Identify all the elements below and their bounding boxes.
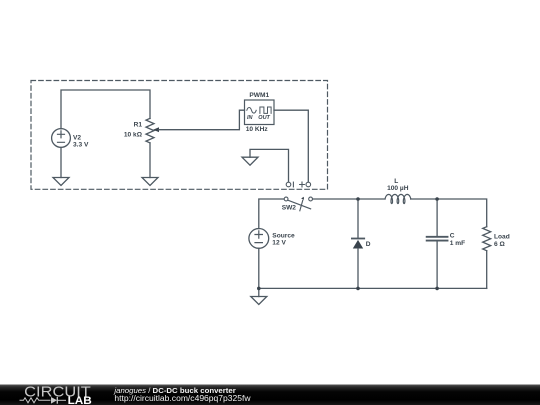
- wire diode top: [357, 199, 359, 239]
- svg-text:Load: Load: [494, 234, 510, 241]
- svg-text:LAB: LAB: [68, 395, 92, 405]
- junction node diode/rail: [356, 287, 360, 291]
- junction node cap/rail: [435, 287, 439, 291]
- svg-text:L: L: [394, 178, 398, 185]
- junction node switch/diode: [356, 197, 360, 201]
- voltage source: Source: [249, 229, 269, 249]
- junction node L/C: [435, 197, 439, 201]
- wire source bottom to rail: [258, 248, 260, 288]
- switch SW2 actuator arrow: [300, 200, 303, 211]
- switch SW2 left contact: [284, 197, 288, 201]
- square wave glyph: [260, 107, 271, 113]
- svg-text:Source: Source: [272, 233, 295, 240]
- switch SW2 lever: [288, 200, 311, 209]
- svg-text:SW2: SW2: [282, 205, 297, 212]
- diode D cathode bar: [352, 238, 364, 240]
- PWM1 block body: [245, 100, 275, 125]
- wire wiper to PWM IN: [159, 110, 245, 130]
- svg-text:OUT: OUT: [258, 115, 270, 121]
- wire gnd main: [258, 288, 260, 296]
- svg-text:R1: R1: [134, 121, 143, 128]
- wire PWM OUT to + port: [274, 110, 308, 182]
- svg-text:V2: V2: [73, 134, 81, 141]
- wire inductor to load corner: [411, 199, 487, 227]
- svg-text:IN: IN: [247, 115, 254, 121]
- junction node source/rail: [257, 287, 261, 291]
- port + sign: [300, 182, 305, 187]
- annotation dashed box: [31, 81, 328, 190]
- ground (main): [251, 297, 267, 305]
- wire load bottom: [486, 251, 488, 289]
- inductor L coil: [385, 194, 411, 203]
- wire R1 bottom: [149, 143, 151, 178]
- svg-text:PWM1: PWM1: [249, 92, 269, 99]
- svg-text:10 kΩ: 10 kΩ: [124, 131, 143, 138]
- ground (V2): [53, 178, 69, 186]
- svg-text:D: D: [366, 241, 371, 248]
- wire capacitor bottom: [436, 241, 438, 289]
- sine glyph: [247, 108, 256, 114]
- port | tick mark: [292, 182, 294, 187]
- ground (R1): [142, 178, 158, 186]
- diode D body: [353, 240, 363, 249]
- resistor R1 potentiometer body: [146, 118, 154, 143]
- voltage source V2: [52, 129, 71, 148]
- svg-text:6 Ω: 6 Ω: [494, 241, 505, 248]
- load resistor body: [483, 227, 491, 251]
- svg-text:C: C: [450, 233, 455, 240]
- wire V2 top to R1 top: [61, 90, 150, 129]
- capacitor C plates: [427, 236, 448, 238]
- wire diode bottom: [357, 249, 359, 289]
- svg-text:1 mF: 1 mF: [450, 240, 465, 247]
- wire V2 bottom: [60, 147, 62, 177]
- svg-text:3.3 V: 3.3 V: [73, 141, 89, 148]
- svg-text:100 µH: 100 µH: [387, 185, 409, 192]
- R1 wiper arrow: [153, 127, 159, 132]
- wire capacitor top: [436, 199, 438, 237]
- wire gnd to | port: [250, 149, 289, 182]
- logo squiggle wire resistor: [20, 398, 51, 403]
- port terminal circle +: [306, 182, 311, 187]
- logo diode symbol: [51, 397, 57, 404]
- wire source top to switch: [259, 199, 285, 229]
- switch SW2 right contact: [309, 197, 313, 201]
- port terminal circle |: [286, 182, 291, 187]
- ground (PWM net): [242, 157, 258, 165]
- svg-text:12 V: 12 V: [272, 240, 286, 247]
- svg-text:10 KHz: 10 KHz: [246, 126, 269, 133]
- svg-text:http://circuitlab.com/c496pq7p: http://circuitlab.com/c496pq7p325fw: [114, 394, 250, 403]
- wire switch to inductor: [313, 198, 386, 200]
- bottom rail: [259, 287, 487, 289]
